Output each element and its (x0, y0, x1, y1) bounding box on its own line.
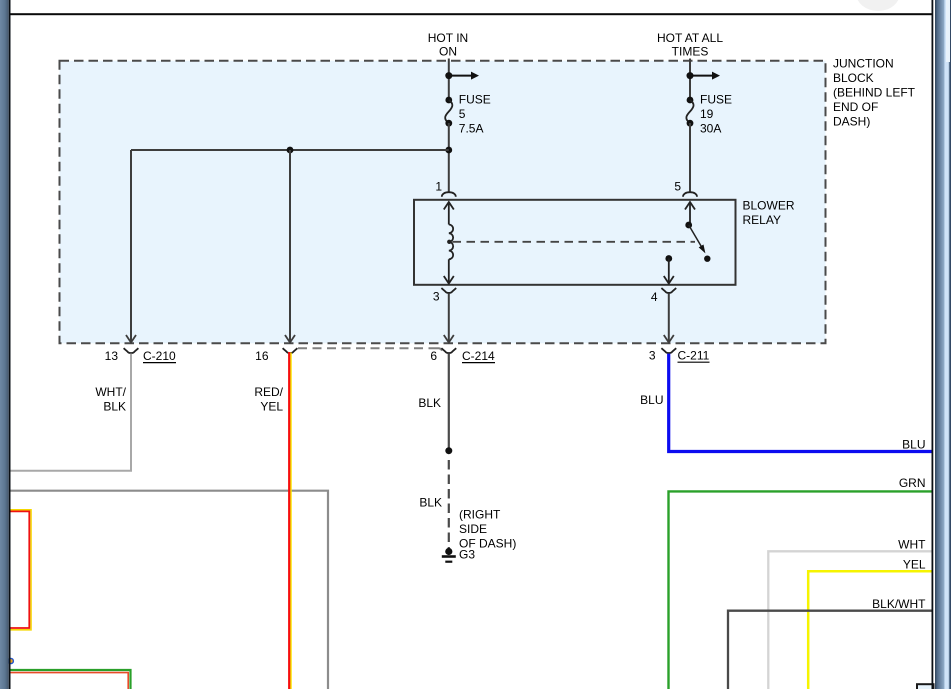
svg-text:7.5A: 7.5A (459, 122, 484, 136)
svg-text:RELAY: RELAY (743, 213, 781, 227)
svg-text:GRN: GRN (899, 476, 926, 490)
svg-text:YEL: YEL (903, 558, 926, 572)
svg-text:1: 1 (435, 180, 442, 194)
svg-text:C-210: C-210 (143, 349, 176, 363)
svg-text:DASH): DASH) (833, 115, 870, 129)
svg-text:4: 4 (651, 290, 658, 304)
svg-text:(RIGHT: (RIGHT (459, 507, 501, 521)
svg-text:SIDE: SIDE (459, 522, 487, 536)
svg-text:13: 13 (105, 349, 119, 363)
svg-text:RED/: RED/ (254, 385, 283, 399)
svg-text:BLK: BLK (418, 396, 441, 410)
svg-text:(BEHIND LEFT: (BEHIND LEFT (833, 86, 916, 100)
svg-text:ON: ON (439, 45, 457, 59)
svg-text:C-214: C-214 (462, 349, 495, 363)
svg-text:3: 3 (649, 349, 656, 363)
svg-text:3: 3 (433, 290, 440, 304)
svg-text:BLK/WHT: BLK/WHT (872, 597, 926, 611)
svg-text:16: 16 (255, 349, 269, 363)
svg-text:HOT AT ALL: HOT AT ALL (657, 31, 723, 45)
svg-text:BLOCK: BLOCK (833, 71, 874, 85)
svg-text:END OF: END OF (833, 100, 878, 114)
svg-text:JUNCTION: JUNCTION (833, 57, 894, 71)
svg-text:BLU: BLU (640, 393, 663, 407)
svg-text:FUSE: FUSE (700, 93, 732, 107)
svg-text:YEL: YEL (260, 400, 283, 414)
svg-text:HOT IN: HOT IN (428, 31, 468, 45)
svg-text:BLK: BLK (419, 496, 442, 510)
svg-text:5: 5 (459, 107, 466, 121)
svg-text:6: 6 (430, 349, 437, 363)
svg-text:5: 5 (674, 180, 681, 194)
svg-text:BLOWER: BLOWER (743, 198, 795, 212)
svg-text:G3: G3 (459, 547, 475, 561)
svg-text:WHT: WHT (898, 538, 926, 552)
svg-text:FUSE: FUSE (459, 93, 491, 107)
svg-text:TIMES: TIMES (672, 45, 709, 59)
svg-text:BLK: BLK (103, 400, 126, 414)
svg-text:30A: 30A (700, 122, 721, 136)
svg-text:BLU: BLU (902, 437, 925, 451)
svg-text:C-211: C-211 (678, 349, 710, 363)
svg-text:19: 19 (700, 107, 714, 121)
svg-text:WHT/: WHT/ (95, 385, 126, 399)
